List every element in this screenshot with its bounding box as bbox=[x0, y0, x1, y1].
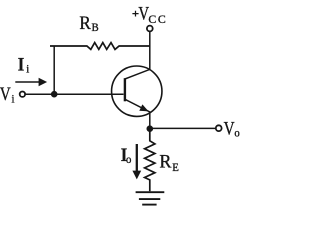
svg-text:R: R bbox=[159, 151, 172, 173]
label Vi bbox=[0, 83, 15, 105]
transistor Q1 circle bbox=[112, 66, 162, 116]
label RB bbox=[79, 12, 99, 34]
resistor RB bbox=[50, 43, 150, 50]
current arrow Io bbox=[132, 144, 141, 179]
label Ii bbox=[18, 53, 30, 75]
wire output bbox=[150, 127, 216, 129]
transistor Q1 emitter arrow bbox=[139, 104, 148, 111]
transistor Q1 emitter bbox=[125, 99, 150, 129]
label Vo bbox=[224, 118, 240, 140]
svg-text:B: B bbox=[92, 22, 100, 35]
ground bbox=[136, 192, 165, 204]
svg-text:o: o bbox=[234, 127, 240, 140]
svg-text:i: i bbox=[12, 93, 15, 106]
label +VCC plus sign bbox=[132, 3, 167, 26]
svg-text:o: o bbox=[126, 154, 132, 167]
svg-text:i: i bbox=[26, 63, 29, 76]
svg-text:V: V bbox=[0, 83, 11, 104]
terminal +VCC bbox=[147, 26, 153, 32]
svg-text:E: E bbox=[172, 161, 179, 174]
label Io bbox=[121, 144, 132, 166]
svg-text:I: I bbox=[18, 53, 25, 74]
wire base (Vi to transistor base) bbox=[26, 93, 124, 95]
svg-text:V: V bbox=[224, 118, 235, 139]
terminal Vo bbox=[216, 125, 222, 131]
node A (base junction) bbox=[51, 91, 58, 98]
label RE bbox=[159, 151, 178, 174]
svg-text:R: R bbox=[79, 12, 91, 33]
current arrow Ii bbox=[15, 78, 47, 86]
wire VCC to collector bbox=[125, 32, 150, 79]
terminal Vi bbox=[20, 92, 25, 97]
wire node A up bbox=[53, 46, 55, 94]
transistor Q1 base bar bbox=[124, 78, 126, 101]
svg-text:CC: CC bbox=[148, 12, 167, 26]
resistor RE bbox=[145, 129, 155, 192]
node B (emitter junction) bbox=[147, 125, 154, 132]
